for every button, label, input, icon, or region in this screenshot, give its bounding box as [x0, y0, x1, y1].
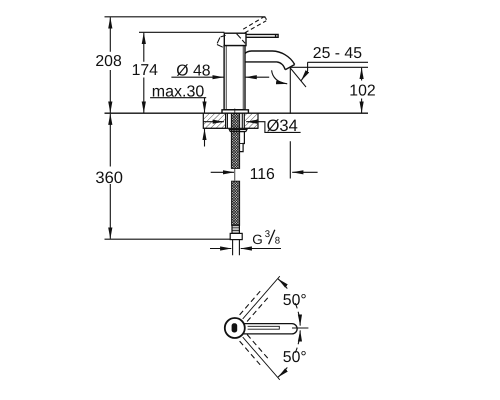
base plate — [222, 110, 248, 113]
upper arc dashed segment with arrow to centerline — [295, 303, 300, 321]
svg-text:174: 174 — [132, 62, 159, 79]
stream swivel curved arrow — [272, 70, 288, 84]
water stream line — [290, 68, 306, 87]
lower arc solid segment with arrow — [278, 367, 287, 377]
braided hose upper — [231, 113, 239, 168]
Ø34 leader with arrow and underline — [246, 122, 300, 133]
deck hatch right — [244, 113, 258, 128]
deck slab section outline — [203, 113, 258, 128]
outlet level reference line — [290, 66, 368, 68]
dimension 116 left arrow — [211, 171, 234, 173]
spout — [245, 51, 295, 70]
dimension 208 — [109, 17, 111, 112]
deck surface line — [105, 112, 369, 114]
dimension 360 — [109, 114, 111, 239]
lever top view capsule — [241, 324, 297, 334]
body circle top view — [225, 318, 245, 338]
deck hatch left — [203, 113, 225, 128]
cartridge housing — [224, 33, 246, 45]
centerline in hose gap — [234, 169, 236, 181]
svg-text:25 - 45: 25 - 45 — [313, 45, 362, 62]
thread tube end — [233, 240, 240, 256]
G3/8 level line — [105, 238, 231, 240]
25-45 leader arrow to outlet — [301, 62, 307, 80]
body — [224, 46, 245, 110]
upper arc solid segment with arrow — [278, 279, 287, 289]
braided hose lower — [232, 181, 240, 225]
svg-text:G: G — [252, 232, 263, 247]
washer under deck — [229, 129, 247, 131]
body inner lines — [226, 46, 243, 110]
deck slab bottom edge — [203, 127, 258, 129]
label G 3/8 — [269, 230, 275, 245]
dashed lever rotated down — [240, 335, 269, 367]
outlet vertical reference line — [289, 67, 291, 178]
max.30 lower arrow — [204, 129, 206, 147]
lever inner detail — [248, 326, 280, 329]
svg-text:50°: 50° — [283, 292, 307, 309]
centerline right — [292, 327, 308, 329]
G3/8 thread right arrow — [241, 248, 281, 250]
svg-text:max.30: max.30 — [152, 84, 205, 101]
dimension Ø48 left arrow — [171, 76, 223, 78]
svg-text:3: 3 — [265, 229, 270, 240]
svg-text:116: 116 — [250, 166, 275, 183]
lever rod — [246, 34, 278, 37]
swivel arcs — [278, 279, 300, 377]
hose crimp ferrule — [232, 225, 239, 233]
extension line housing top — [139, 31, 224, 33]
lower arc dashed segment with arrow to centerline — [295, 335, 300, 353]
svg-text:208: 208 — [95, 53, 122, 70]
dashed lever rotated up — [240, 290, 269, 366]
base centerline tick — [234, 109, 236, 114]
mounting stud — [240, 132, 245, 152]
lever pin — [232, 323, 238, 332]
max.30 upper arrow — [204, 98, 206, 113]
Ø34 left arrow — [204, 121, 224, 123]
svg-text:8: 8 — [275, 235, 280, 246]
50deg upper reference line — [243, 276, 280, 319]
dimension Ø48 right arrow — [246, 76, 270, 78]
G3/8 connection nut — [230, 233, 242, 239]
svg-text:Ø34: Ø34 — [267, 117, 298, 135]
50deg lower reference line — [243, 337, 280, 380]
extension line top (lever max height) — [105, 16, 266, 18]
25-45 underline — [308, 61, 369, 63]
G3/8 thread left arrow — [210, 248, 231, 250]
raised lever dashed — [243, 17, 266, 33]
dimension 102 — [361, 68, 363, 113]
dimension 174 — [143, 33, 145, 113]
svg-text:360: 360 — [95, 169, 123, 187]
svg-text:Ø 48: Ø 48 — [176, 63, 210, 80]
svg-text:102: 102 — [349, 83, 375, 100]
shank walls through deck — [227, 113, 242, 128]
svg-text:50°: 50° — [283, 349, 307, 366]
max.30 underline — [150, 97, 206, 99]
dimension 116 right arrow — [292, 171, 317, 173]
